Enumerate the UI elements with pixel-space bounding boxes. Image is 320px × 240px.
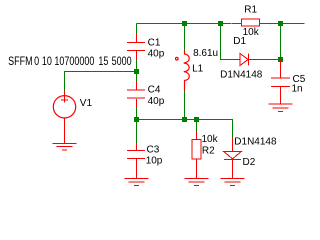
svg-text:L1: L1 [192,64,204,75]
svg-text:D2: D2 [243,157,256,168]
svg-text:C3: C3 [147,145,160,156]
svg-text:R2: R2 [202,145,215,156]
svg-text:0: 0 [34,55,39,69]
svg-text:5000: 5000 [112,55,132,69]
svg-text:1n: 1n [292,84,303,95]
svg-text:C1: C1 [148,37,161,48]
svg-text:15: 15 [98,55,108,69]
svg-text:10700000: 10700000 [54,55,94,69]
svg-text:V1: V1 [80,98,93,109]
svg-text:40p: 40p [148,96,165,107]
svg-text:SFFM: SFFM [8,55,32,69]
svg-text:C4: C4 [148,85,161,96]
svg-text:D1N4148: D1N4148 [220,69,263,80]
svg-text:D1: D1 [233,36,246,47]
svg-text:10k: 10k [202,134,219,145]
svg-text:R1: R1 [244,5,257,16]
svg-text:8.61u: 8.61u [193,48,218,59]
svg-text:10p: 10p [146,155,163,166]
svg-text:10: 10 [42,55,52,69]
svg-text:40p: 40p [148,48,165,59]
svg-text:D1N4148: D1N4148 [234,136,277,147]
